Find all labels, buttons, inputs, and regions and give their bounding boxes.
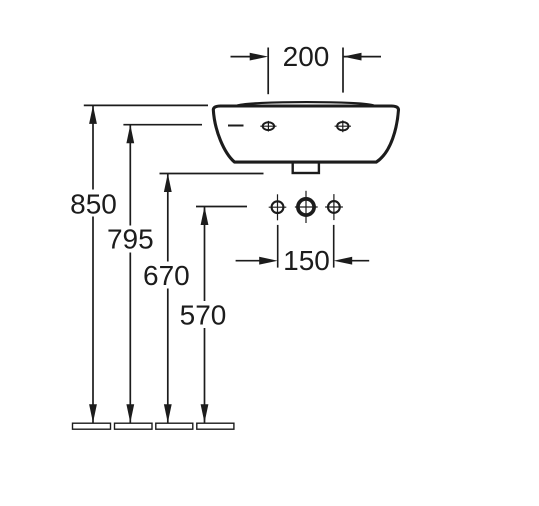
arrow down 670	[164, 404, 172, 423]
dimension line 670 vertical	[167, 174, 169, 423]
dimension line 850 vertical	[92, 105, 94, 422]
extension line 150 right	[333, 225, 335, 268]
reference line 850 (basin top)	[84, 104, 208, 106]
dimension arrow 200 left	[250, 53, 269, 61]
basin outline	[213, 106, 398, 162]
arrow down 850	[89, 404, 97, 423]
reference line 670 (basin bottom)	[160, 173, 264, 175]
drain outlet	[293, 162, 319, 173]
fixing hole right	[335, 120, 351, 132]
svg-text:670: 670	[143, 260, 190, 291]
reference line 795 (fixing holes)	[123, 124, 202, 126]
svg-text:850: 850	[70, 188, 117, 219]
dimension line 150 right segment	[339, 260, 369, 262]
extension line 150 left	[277, 225, 279, 268]
tap hole right	[325, 194, 343, 220]
dimension line 150 left segment	[236, 260, 272, 262]
reference dash 795 inside basin	[228, 125, 244, 127]
arrow up 795	[126, 125, 134, 144]
arrow up 570	[201, 207, 209, 226]
dimension arrow 150 right	[334, 257, 353, 265]
dimension line 200 left segment	[231, 56, 263, 58]
svg-text:795: 795	[107, 224, 154, 255]
label mask 670	[142, 262, 191, 289]
svg-text:200: 200	[283, 41, 330, 72]
svg-text:150: 150	[283, 245, 330, 276]
label mask 850	[69, 190, 118, 217]
reference line 570 (tap holes)	[196, 206, 247, 208]
floor tile 1	[73, 423, 111, 429]
tap hole center	[295, 191, 318, 223]
extension line 200 right	[342, 48, 344, 93]
tap hole left	[269, 194, 287, 220]
label mask 570	[179, 301, 228, 328]
floor tile 4	[197, 423, 234, 429]
dimension arrow 150 left	[259, 257, 278, 265]
arrow down 795	[126, 404, 134, 423]
dimension line 570 vertical	[204, 207, 206, 423]
fixing hole left	[260, 121, 276, 132]
dimension line 200 right segment	[343, 56, 381, 58]
label mask 795	[106, 226, 155, 253]
extension line 200 left	[267, 48, 269, 95]
basin rim arc	[237, 102, 374, 106]
floor tile 3	[156, 423, 193, 429]
arrow down 570	[201, 404, 209, 423]
arrow up 670	[164, 174, 172, 193]
arrow up 850	[89, 105, 97, 124]
floor tile 2	[115, 423, 153, 429]
dimension arrow 200 right	[343, 53, 362, 61]
dimension line 795 vertical	[129, 125, 131, 423]
svg-text:570: 570	[180, 299, 227, 330]
